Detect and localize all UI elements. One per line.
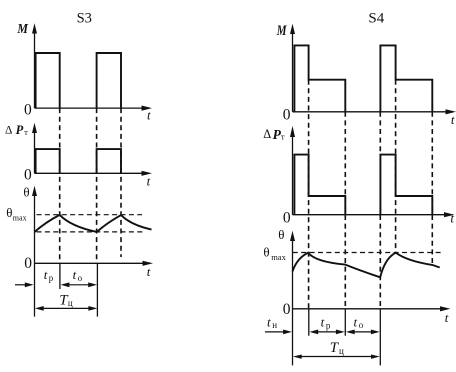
plot1 M y-axis (S4) (290, 24, 295, 112)
label T_c (S4) (330, 340, 344, 356)
dashed level theta-min (S3) (37, 231, 144, 233)
plot2 dP x-axis (35, 171, 153, 176)
svg-text:0: 0 (283, 210, 291, 227)
svg-text:θ: θ (263, 244, 269, 259)
svg-text:Δ: Δ (5, 124, 12, 136)
svg-text:т: т (281, 132, 285, 142)
svg-text:S3: S3 (77, 10, 92, 26)
svg-text:t: t (451, 112, 455, 127)
svg-text:θ: θ (278, 227, 284, 242)
svg-text:Δ: Δ (263, 127, 271, 141)
svg-text:0: 0 (283, 107, 291, 124)
label T_c (S3) (59, 292, 73, 308)
annotation vertical x=34.6 (S3 axis extension) (34, 263, 36, 316)
dashed vertical x=345.3 (S4) (344, 112, 346, 309)
label theta-max (plot3 S4) (263, 244, 286, 261)
label t_p (S3) (44, 267, 54, 283)
svg-text:ц: ц (339, 346, 344, 356)
dashed vertical x=308.6 (S4) (308, 80, 310, 309)
svg-text:max: max (13, 214, 27, 223)
svg-text:0: 0 (24, 102, 32, 119)
svg-text:t: t (267, 315, 271, 330)
dashed vertical x=395.6 (S4) (395, 80, 397, 253)
dashed vertical x=60 (S3) (59, 108, 61, 263)
plot2 dP y-axis (S4) (290, 126, 295, 215)
svg-text:θ: θ (6, 205, 12, 220)
label t_o (S4) (354, 314, 364, 330)
double arrow t_o (S3) (61, 282, 97, 287)
double arrow T_c (S4) (293, 355, 380, 359)
dashed vertical x=121 (S3) (120, 108, 122, 257)
plot1 M x-axis (35, 106, 153, 111)
svg-text:max: max (271, 252, 286, 262)
svg-text:0: 0 (24, 255, 32, 272)
svg-text:t: t (73, 267, 77, 282)
svg-text:ц: ц (68, 298, 73, 308)
annotation vertical x=308.8 (S4) (308, 309, 310, 336)
annotation vertical x=97.4 (S3) (96, 263, 98, 316)
svg-text:P: P (16, 123, 24, 137)
left outside arrow of t_p (S3) (15, 282, 34, 287)
left outside arrow of t_n (S4) (265, 330, 292, 335)
svg-text:M: M (276, 23, 287, 39)
plot3 theta x-axis (S4) (293, 306, 451, 311)
waveform M steps (S4) (294, 45, 432, 111)
svg-text:т: т (24, 128, 28, 137)
svg-text:0: 0 (24, 166, 32, 183)
annotation vertical x=345.3 (S4) (344, 309, 346, 336)
label theta-max (plot3 S3) (6, 205, 26, 223)
svg-text:t: t (147, 264, 151, 279)
svg-text:t: t (445, 310, 449, 325)
plot2 dP y-axis (32, 123, 37, 174)
waveform dP steps (S4) (294, 155, 432, 215)
svg-text:н: н (272, 320, 277, 330)
dashed vertical x=96.6 (S3) (96, 108, 98, 263)
svg-text:t: t (44, 267, 48, 282)
svg-text:t: t (354, 314, 358, 329)
plot3 theta x-axis (35, 261, 154, 266)
waveform M pulses (S3) (36, 53, 121, 108)
plot2 dP x-axis (S4) (293, 212, 455, 217)
label t_p (S4) (321, 314, 331, 330)
svg-text:t: t (450, 211, 454, 226)
svg-text:θ: θ (23, 185, 29, 200)
svg-text:0: 0 (283, 301, 291, 318)
svg-text:t: t (147, 174, 151, 189)
svg-text:t: t (321, 314, 325, 329)
dashed vertical x=380.3 (S4) (379, 112, 381, 309)
svg-text:S4: S4 (368, 11, 384, 27)
dashed vertical x=432.3 (S4) (431, 112, 433, 265)
annotation vertical x=380.3 (S4) (379, 309, 381, 366)
label delta-P-t (plot2 S4) (263, 127, 285, 142)
double arrow t_o (S4) (346, 330, 380, 335)
label t_n (S4) (267, 315, 277, 331)
plot3 theta y-axis (32, 186, 37, 263)
waveform dP pulses (S3) (36, 149, 121, 173)
temperature curve (S3) (35, 215, 152, 232)
svg-text:t: t (147, 107, 151, 122)
annotation vertical x=292.4 (S4 axis extension) (292, 309, 294, 366)
label delta-P-t (plot2 S3) (5, 123, 28, 137)
svg-text:о: о (359, 320, 364, 330)
plot1 M x-axis (S4) (293, 109, 456, 114)
svg-text:р: р (326, 321, 331, 331)
temperature curve (S4) (293, 253, 440, 278)
dashed level theta-max (S3) (37, 214, 143, 216)
annotation vertical x=60 (S3 short) (59, 263, 61, 289)
label t_o (S3) (73, 267, 83, 283)
double arrow t_p (S4) (309, 330, 344, 335)
plot3 theta y-axis (S4) (290, 231, 295, 309)
svg-text:р: р (49, 273, 54, 283)
plot1 M y-axis (32, 23, 37, 108)
svg-text:о: о (78, 273, 83, 283)
svg-text:M: M (17, 22, 29, 37)
double arrow T_c (S3) (35, 306, 97, 311)
dashed level theta-max (S4) (293, 252, 441, 254)
